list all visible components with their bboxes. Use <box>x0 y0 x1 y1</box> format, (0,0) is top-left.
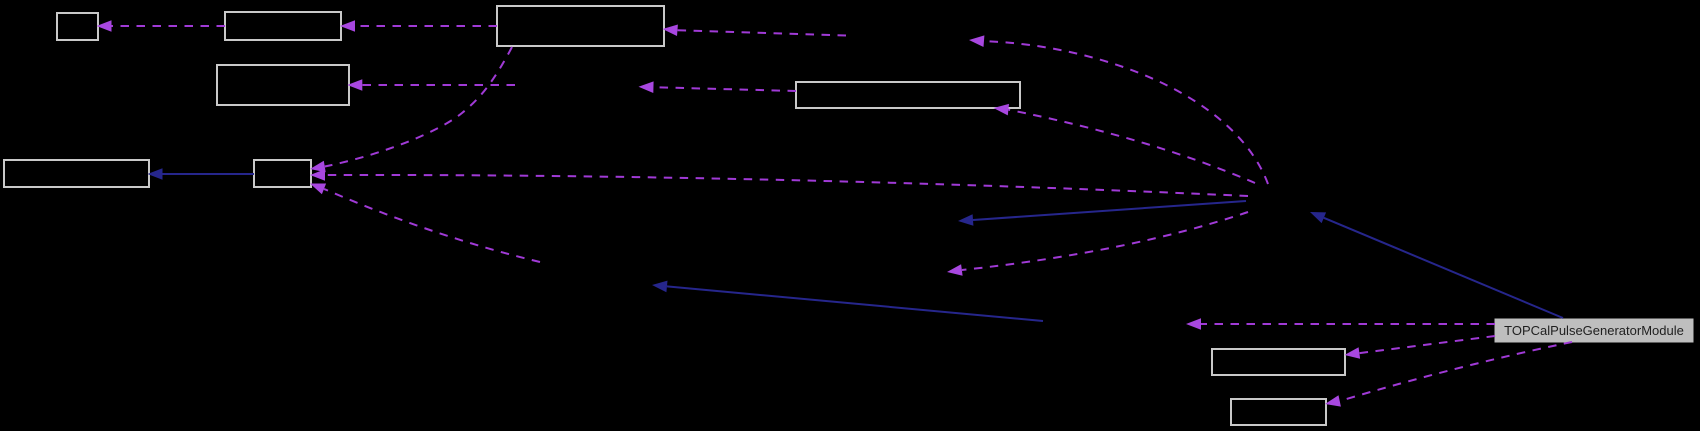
edge E6 dashed S-curve: B3 to B7 <box>310 47 512 172</box>
edge E10 dashed curve: TOPCalPulseGeneratorModule to B9 <box>1325 342 1572 407</box>
edge EB3 blue solid: hub node to invisible node <box>958 201 1246 226</box>
edge E11 dashed curve: hub node to invisible node lower <box>947 212 1248 276</box>
node TOPCalPulseGeneratorModule (gray filled, highlighted) <box>1495 319 1693 342</box>
node B9 <box>1231 399 1326 425</box>
edge E9 dashed: TOPCalPulseGeneratorModule to B8 <box>1345 336 1496 359</box>
node B2 <box>225 12 341 40</box>
edge EB1 blue solid: B7 to B6 <box>148 168 255 180</box>
node B4 (two-line box) <box>217 65 349 105</box>
edge EB2 blue solid: TOPCalPulseGeneratorModule to hub node <box>1310 212 1563 318</box>
svg-text:TOPCalPulseGeneratorModule: TOPCalPulseGeneratorModule <box>1504 323 1684 338</box>
edge E2 dashed: B2 to B1 <box>97 20 226 32</box>
edge E3a dashed: invisible node to B3 <box>663 25 847 37</box>
edge E7 dashed long: hub node to B7 <box>310 169 1248 196</box>
node B5 <box>796 82 1020 108</box>
edge E4 dashed curve: hub node to B5 <box>994 104 1256 183</box>
edge EB4 blue solid: invisible node to invisible node left <box>652 281 1043 321</box>
edge E8 dashed: TOPCalPulseGeneratorModule to invisible node <box>1186 318 1495 330</box>
node B1 (top-left small box) <box>57 13 98 40</box>
edge E3b dashed curve: hub node to invisible node <box>969 35 1268 184</box>
edge E5b dashed: B5 to invisible node <box>639 81 797 93</box>
node B7 <box>254 160 311 187</box>
edge E1 dashed: B3 to B2 <box>340 20 497 32</box>
node B6 <box>4 160 149 187</box>
edge E12 dashed: invisible node to B7 lower <box>310 184 540 263</box>
node B8 <box>1212 349 1345 375</box>
edge E5a dashed: invisible node to B4 <box>347 79 515 91</box>
node B3 (two-line box) <box>497 6 664 46</box>
